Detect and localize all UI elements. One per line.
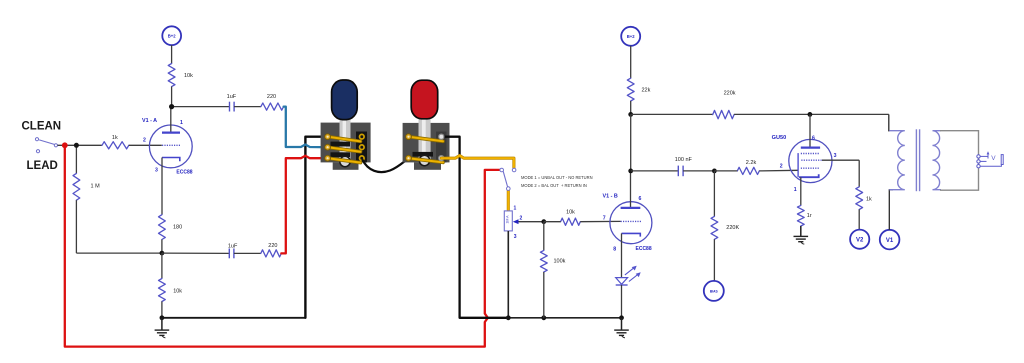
svg-text:7: 7: [603, 215, 606, 221]
svg-text:GU50: GU50: [772, 135, 787, 141]
wire B+2 to 22k: [630, 46, 632, 78]
node ground left: [160, 315, 165, 320]
svg-text:2: 2: [143, 138, 146, 144]
wire yellow hookup (SW-B to mode switch): [441, 156, 514, 168]
svg-text:V1: V1: [886, 238, 894, 244]
wire rail A down to node C: [630, 114, 632, 170]
wire red hookup (220 lower to blue switch bottom lug): [281, 156, 327, 254]
resistor 10k (plate load V1-A): [168, 64, 193, 87]
svg-text:2: 2: [780, 164, 783, 170]
resistor 10k (cathode bottom): [159, 253, 183, 318]
mode annotation text: [521, 175, 593, 188]
toggle switch SW-B body: [403, 118, 450, 170]
wire black hookup (blue switch top lug to ground): [305, 137, 327, 318]
svg-text:100 nF: 100 nF: [675, 157, 693, 163]
node cathode row: [160, 251, 165, 256]
svg-text:6: 6: [812, 136, 815, 142]
primary winding: [889, 131, 905, 190]
input selector switch SW1 (CLEAN/LEAD): [35, 138, 57, 153]
ground (GU50 cathode): [794, 236, 809, 244]
svg-text:MODE 1 = UNBAL OUT - NO RETURN: MODE 1 = UNBAL OUT - NO RETURN: [521, 175, 593, 180]
cathode (pin 3) V1-A: [162, 158, 180, 162]
resistor 2.2k (grid stopper GU50): [714, 160, 798, 175]
svg-text:1k: 1k: [112, 135, 118, 141]
wire red return (input node to mode switch): [65, 148, 500, 347]
svg-text:BIAS: BIAS: [710, 290, 719, 294]
capacitor 1uF (lower coupling): [228, 243, 261, 258]
lugs SW-B left: [406, 134, 412, 161]
node D: [712, 169, 717, 174]
svg-text:180: 180: [173, 225, 182, 231]
wire 220k to transformer: [734, 113, 889, 115]
pin 2 wiper arrow: [518, 221, 544, 223]
lugs SW-A right: [360, 134, 365, 160]
label CLEAN input: [22, 121, 62, 133]
wire jumper bars SW-B: [409, 137, 444, 163]
toggle cap red SW-B: [411, 80, 438, 119]
svg-text:1: 1: [514, 206, 517, 212]
svg-text:10k: 10k: [184, 73, 193, 79]
svg-text:1r: 1r: [807, 213, 812, 219]
svg-text:220: 220: [268, 243, 277, 249]
wire ground rail (pot/100k/LED): [508, 317, 621, 319]
label LEAD input: [27, 160, 58, 172]
wire rail A to 220k: [631, 113, 713, 115]
meter V2: [850, 230, 869, 249]
svg-text:1: 1: [180, 120, 183, 126]
core: [915, 129, 917, 191]
svg-text:8: 8: [613, 246, 616, 252]
resistor 220 (lower output): [261, 243, 282, 257]
svg-text:V1 - B: V1 - B: [603, 194, 618, 200]
node pot ground: [506, 315, 511, 320]
cathode (pin 8) V1-B: [622, 233, 641, 236]
lugs SW-B right: [439, 134, 444, 161]
node C (V1-B plate): [628, 169, 633, 174]
resistor 22k: [627, 78, 650, 114]
resistor 1k (screen): [856, 187, 872, 230]
supply B+2 (right): [621, 27, 640, 46]
svg-text:2.2k: 2.2k: [746, 160, 757, 166]
wire 1k to grid V1-A: [129, 144, 162, 146]
pentode GU50: [772, 114, 837, 193]
resistor 10k (grid V1-B): [561, 209, 581, 225]
resistor 1M (grid leak): [73, 145, 100, 253]
node grid junction: [541, 219, 546, 224]
grids GU50: [801, 153, 820, 155]
svg-text:1M A: 1M A: [505, 215, 509, 224]
pin 6 plate lead GU50: [809, 114, 811, 147]
svg-text:3: 3: [514, 234, 517, 240]
svg-text:1: 1: [794, 187, 797, 193]
svg-text:ECC88: ECC88: [636, 246, 652, 252]
wire plate node to coupling cap: [172, 106, 230, 108]
svg-text:6: 6: [639, 196, 642, 202]
node rail A: [628, 112, 633, 117]
svg-text:220k: 220k: [724, 90, 736, 96]
wire 10k to plate node: [171, 87, 173, 107]
supply B+2 (left): [162, 26, 181, 45]
svg-text:1 M: 1 M: [91, 183, 101, 189]
svg-text:2: 2: [520, 216, 523, 222]
wire black hookup (SW-B top right lug to ground rail): [441, 137, 506, 318]
op-amp-; triode V1-A ECC88: [142, 107, 193, 215]
svg-text:1uF: 1uF: [228, 243, 238, 249]
node input black: [74, 143, 79, 148]
svg-text:LEAD: LEAD: [27, 160, 58, 172]
resistor 100k: [540, 222, 565, 318]
resistor 220k: [713, 90, 736, 119]
toggle cap blue SW-A: [332, 80, 358, 120]
wire cathode node to lower coupling: [162, 252, 229, 254]
wire 10k to grid V1-B: [580, 220, 620, 222]
node LED ground: [619, 315, 624, 320]
svg-text:3: 3: [155, 168, 158, 174]
node input red: [62, 142, 68, 148]
wire rail down to primary top: [888, 114, 890, 131]
pin 6 plate lead V1-B: [630, 171, 632, 208]
meter V1: [880, 230, 900, 250]
svg-text:ECC88: ECC88: [176, 170, 192, 176]
wire 1M bottom to cathode node: [76, 252, 161, 254]
svg-text:220K: 220K: [726, 225, 739, 231]
triode V1-B ECC88: [603, 171, 652, 278]
resistor 180 (cathode V1-A): [159, 215, 183, 253]
node rail B (GU50 plate): [808, 112, 813, 117]
svg-text:B+2: B+2: [168, 34, 176, 39]
secondary winding: [933, 131, 942, 190]
cathode GU50: [799, 174, 819, 177]
wire yellow hookup (mode switch to pot): [507, 191, 510, 210]
secondary loop: [940, 131, 979, 191]
wire ground rail to switch column: [162, 317, 306, 319]
svg-text:MODE 2 = BAL OUT + RETURN IN: MODE 2 = BAL OUT + RETURN IN: [521, 183, 587, 188]
svg-text:100k: 100k: [554, 259, 566, 265]
svg-text:CLEAN: CLEAN: [22, 121, 62, 133]
svg-text:10k: 10k: [173, 289, 182, 295]
svg-text:10k: 10k: [566, 209, 575, 215]
pin 1 plate lead V1-A: [170, 107, 172, 133]
ground (left): [155, 318, 170, 338]
toggle switch SW-A body: [321, 118, 371, 170]
node plate V1-A: [169, 104, 174, 109]
svg-text:B+2: B+2: [627, 34, 635, 39]
capacitor 1uF (upper coupling): [227, 94, 261, 112]
svg-text:V: V: [991, 155, 996, 162]
svg-text:220: 220: [267, 94, 276, 100]
svg-text:3: 3: [834, 153, 837, 159]
grid (pin 7) V1-B: [621, 220, 642, 222]
grid (pin 2) V1-A: [162, 144, 181, 146]
wire teal hookup (220 upper to blue switch mid lug): [284, 107, 328, 148]
node 100k ground: [541, 315, 546, 320]
svg-text:1k: 1k: [866, 196, 872, 202]
LED indicator: [616, 266, 641, 318]
wire black link SW-A to SW-B: [362, 159, 407, 172]
mode selector switch: [500, 168, 516, 190]
ground (LED): [614, 318, 629, 338]
svg-text:V2: V2: [856, 238, 864, 244]
output jack with V annotation: [977, 151, 1003, 168]
capacitor 100 nF: [631, 157, 715, 176]
resistor 220 (upper output): [261, 94, 284, 110]
svg-text:1uF: 1uF: [227, 94, 237, 100]
lugs SW-A left: [325, 134, 331, 161]
wire jumper bars SW-A: [328, 137, 361, 163]
resistor 1r (cathode GU50): [797, 177, 811, 236]
svg-text:22k: 22k: [642, 88, 651, 94]
pin 3 wire to ground rail: [507, 231, 509, 318]
wire V1 to transformer primary bottom: [889, 190, 893, 230]
svg-text:V1 - A: V1 - A: [142, 118, 157, 124]
potentiometer 1M A: [504, 206, 544, 318]
transformer T1: [889, 114, 979, 191]
resistor 220K (bias feed): [711, 171, 739, 281]
resistor 1k (grid stopper V1-A): [102, 135, 129, 149]
wire junction to 10k: [544, 221, 561, 223]
supply BIAS: [704, 281, 724, 301]
wire B+2 to 10k: [171, 45, 173, 63]
wire GU50 pin3 to 1k: [822, 160, 859, 187]
wire input node: [58, 144, 103, 146]
